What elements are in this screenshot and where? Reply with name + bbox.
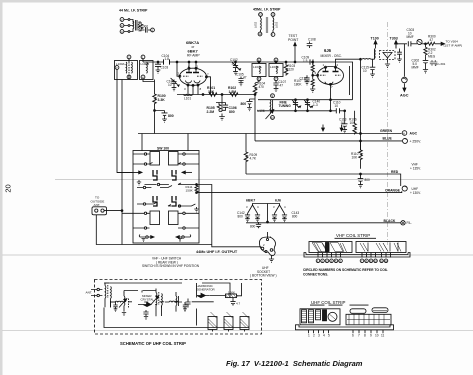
junction mixer grid (312, 74, 314, 76)
node 4 (330, 259, 334, 263)
coil block B (224, 317, 233, 330)
node 9b (45Mc strip) (271, 33, 275, 37)
svg-text:7: 7 (207, 73, 209, 77)
capacitor C110 10 series (336, 108, 339, 113)
svg-text:4.7: 4.7 (236, 302, 241, 306)
ground C103 (156, 68, 161, 73)
node below L103A (257, 77, 261, 81)
svg-text:TUNING: TUNING (279, 104, 292, 108)
svg-text:10K: 10K (350, 121, 357, 125)
wire arrow to V304 (435, 43, 443, 45)
svg-text:L653: L653 (275, 21, 279, 28)
wire connector to ant vertical (104, 210, 122, 212)
capacitor C107 47 (273, 81, 278, 87)
coil L2 (110, 300, 123, 303)
capacitor 6J6 left (272, 214, 277, 222)
switch row 5 (137, 202, 157, 204)
capacitor C302 5.0 MMF (423, 57, 429, 66)
svg-text:10: 10 (341, 121, 345, 125)
svg-text:2.2M: 2.2M (207, 110, 215, 114)
socket pin left (261, 247, 264, 250)
svg-text:4: 4 (257, 205, 259, 209)
coil box L100B (140, 61, 154, 80)
svg-text:800: 800 (365, 178, 371, 182)
capacitor C109 1.5 series on bus (310, 59, 313, 64)
ground grid leak (310, 87, 315, 92)
socket pin right (270, 249, 273, 252)
svg-text:10: 10 (271, 116, 275, 120)
heater 6J6 filament (275, 205, 285, 214)
wire 44Mc contacts (124, 20, 128, 32)
svg-text:8: 8 (364, 333, 366, 337)
AGC arrow down (403, 83, 405, 89)
node 4 below L100B (141, 75, 145, 79)
wire drops to bottom (111, 283, 197, 326)
resistor R108 grid leak upper (311, 62, 314, 75)
resistor R101 33K series (209, 93, 217, 97)
tube V101 6J6 envelope (318, 67, 344, 85)
resistor R105 2.2M shunt (216, 95, 222, 112)
node 9 (369, 259, 373, 263)
UHF strip right block (346, 314, 391, 325)
svg-text:120: 120 (289, 68, 295, 72)
wire heater bus / black (246, 204, 401, 223)
svg-text:CRYSTAL: CRYSTAL (141, 298, 155, 302)
wire osc line 2 (257, 110, 344, 112)
switch row 4 (137, 187, 151, 189)
node 7 (360, 259, 364, 263)
coil box L103B (269, 64, 283, 77)
svg-text:MEG: MEG (428, 55, 436, 59)
contact circles 44Mc (128, 19, 130, 21)
svg-text:6J6: 6J6 (275, 199, 281, 203)
svg-text:10: 10 (168, 83, 172, 87)
svg-text:10K: 10K (352, 156, 359, 160)
tube V100 6BK7A envelope (180, 68, 207, 85)
svg-text:6J6: 6J6 (324, 48, 332, 53)
switch wafer 2 right (172, 196, 176, 206)
node 4 (44Mc strip) (120, 30, 124, 34)
junction dots red line (360, 173, 362, 175)
svg-text:470: 470 (259, 85, 265, 89)
svg-text:5: 5 (328, 333, 330, 337)
pill shape 1 (350, 309, 366, 314)
coil L107 series (362, 58, 375, 61)
svg-text:VHF COIL STRIP: VHF COIL STRIP (336, 233, 370, 238)
wire mid connections (110, 301, 214, 303)
switch wafer 2 left (153, 196, 157, 206)
antenna input terminals (91, 290, 102, 296)
tube V100 pin circles (188, 67, 190, 69)
svg-text:BLUE: BLUE (383, 137, 393, 141)
svg-text:2: 2 (263, 243, 265, 247)
tube V101 internals (323, 71, 339, 73)
ground 800 red (358, 183, 363, 188)
transformer L5 (155, 289, 158, 317)
svg-text:1.5: 1.5 (303, 59, 308, 63)
capacitor C105b 47 (238, 77, 243, 86)
capacitor C303 series (408, 41, 411, 46)
svg-text:C103: C103 (161, 66, 169, 70)
svg-text:L301: L301 (439, 62, 446, 66)
junction dot mixer plate (360, 58, 362, 60)
svg-text:800: 800 (250, 225, 256, 229)
svg-text:BLACK: BLACK (384, 219, 396, 223)
resistor R302 2.2 MEG (424, 44, 427, 57)
T303 secondary cap (397, 49, 402, 58)
wire top bus (143, 61, 353, 63)
svg-text:L652: L652 (254, 21, 258, 28)
tube V101 pin circles (325, 66, 327, 68)
wire plate line y94.5 (177, 94, 255, 96)
svg-text:5: 5 (315, 71, 317, 75)
svg-text:ORANGE: ORANGE (385, 188, 401, 192)
wire AGC line green (138, 133, 402, 135)
cap L7 (185, 299, 190, 308)
junction dot C113 (344, 110, 346, 112)
switch row 3 arrows (117, 171, 140, 173)
svg-text:44 Mc. I.F. STRIP: 44 Mc. I.F. STRIP (119, 9, 148, 13)
node 3 below L100A (127, 75, 131, 79)
svg-text:3: 3 (184, 87, 186, 91)
wire antenna drop 1 (117, 69, 133, 172)
cap mid (143, 310, 148, 316)
node 6 (44Mc strip) (151, 28, 155, 32)
svg-text:+ 135V.: + 135V. (410, 167, 421, 171)
ground R105/C106 (219, 114, 225, 121)
svg-text:4: 4 (323, 333, 325, 337)
svg-text:47: 47 (243, 76, 247, 80)
osc coil L4 (138, 304, 157, 306)
switch rotor arrow left (139, 235, 152, 238)
svg-text:800: 800 (241, 102, 247, 106)
UHF strip schematic dashed box (95, 280, 262, 335)
node 10 (374, 259, 378, 263)
wire blue drop from plate column (254, 140, 256, 142)
svg-text:+ 130V.: + 130V. (410, 191, 421, 195)
core bars (45Mc strip) (266, 17, 268, 33)
terminal B 250V (403, 138, 408, 143)
svg-text:800: 800 (229, 110, 235, 114)
ground C115 (370, 72, 375, 77)
capacitor C142 800 (245, 214, 250, 222)
svg-text:POINT: POINT (288, 38, 298, 42)
svg-text:1-3: 1-3 (313, 103, 318, 107)
node 2 (44Mc strip) (120, 18, 124, 22)
T303 dashed box (380, 51, 396, 60)
switch row 6 left (133, 212, 150, 214)
capacitor 800 heater bus (256, 222, 261, 228)
svg-text:3.3: 3.3 (232, 61, 237, 65)
svg-text:3: 3 (273, 205, 275, 209)
node 2 (321, 259, 325, 263)
wire switch to osc b+ (145, 183, 262, 247)
svg-text:1: 1 (323, 63, 325, 67)
coil L106 box (270, 100, 273, 114)
trimmer C101 3.3 (232, 62, 239, 70)
resistor R106 10K (353, 111, 357, 135)
coil cylinder 3 (316, 310, 321, 320)
coil L101 (184, 94, 193, 97)
wire R100 to bus bottom (154, 105, 156, 134)
svg-text:8: 8 (200, 87, 202, 91)
svg-text:2: 2 (178, 72, 180, 76)
svg-text:SCHEMATIC OF UHF COIL STRI: SCHEMATIC OF UHF COIL STRIP (120, 341, 186, 346)
svg-text:10: 10 (375, 333, 379, 337)
svg-text:T100: T100 (371, 37, 379, 41)
svg-text:10: 10 (335, 104, 339, 108)
ground under right arrow (178, 239, 182, 242)
capacitor 800 red bypass (358, 174, 364, 183)
resistor R105b 120 (284, 62, 288, 76)
wire bottom run (104, 308, 249, 332)
L106 tuning arrow (266, 111, 274, 120)
svg-text:33K: 33K (208, 90, 215, 94)
svg-text:9: 9 (370, 333, 372, 337)
svg-text:7: 7 (358, 333, 360, 337)
resistor R110 10K (359, 141, 363, 169)
svg-text:ANT.: ANT. (86, 291, 93, 295)
capacitor C115 10 (370, 59, 376, 72)
coil cylinder 1 (302, 310, 307, 323)
svg-text:4: 4 (270, 235, 272, 239)
svg-text:T303: T303 (390, 37, 398, 41)
node 8 (365, 259, 369, 263)
coil cylinder 2 (309, 310, 314, 323)
svg-text:+ 250V.: + 250V. (410, 139, 422, 143)
svg-text:AGC: AGC (410, 132, 418, 136)
VHF strip base (304, 253, 410, 258)
resistor R107 4.7K (244, 134, 248, 175)
switch row 2 right (178, 163, 199, 165)
tube V100 plate feeds to bus (189, 62, 196, 68)
svg-text:800: 800 (292, 215, 298, 219)
svg-text:7: 7 (331, 85, 333, 89)
junction dot R100 (154, 110, 156, 112)
svg-text:47: 47 (280, 83, 284, 87)
node below L106 (271, 116, 275, 120)
svg-text:6: 6 (352, 333, 354, 337)
node 12 (45Mc strip) (258, 32, 262, 36)
coil L652 (45Mc strip) (260, 16, 263, 32)
wire L100A top to bus (129, 59, 143, 80)
switch ground right (194, 207, 198, 212)
input transformer L1 (105, 283, 109, 307)
node 3 (325, 259, 329, 263)
junction dots osc (295, 99, 297, 101)
capacitor 800 bypass (plate feed) (247, 99, 256, 106)
ground 800 cap (162, 117, 167, 122)
down arrow tune L (322, 125, 324, 130)
svg-text:L100B: L100B (141, 62, 150, 66)
svg-text:C108: C108 (308, 38, 316, 42)
wire B+ line blue (255, 140, 402, 142)
svg-text:6BK7: 6BK7 (246, 199, 255, 203)
ground under left arrow (142, 239, 146, 242)
svg-text:20: 20 (4, 184, 13, 192)
ground T303 secondary (397, 58, 402, 63)
tube V100 grid wire (177, 62, 180, 76)
socket ground (269, 256, 274, 263)
switch row 7 (133, 227, 150, 229)
terminal X FIL (401, 221, 405, 225)
arrow up T100 (375, 42, 377, 49)
node below L103B (274, 77, 278, 81)
test point arrow (294, 44, 296, 62)
junction dot R302 top (425, 43, 427, 45)
node above L103A (257, 58, 261, 62)
svg-text:C117: C117 (300, 77, 308, 81)
switch wafer 1 right (172, 170, 176, 180)
tube V101 grid wire (313, 74, 318, 76)
capacitor C117 (304, 75, 309, 85)
node 5 (334, 259, 338, 263)
slug arrow coil L3 (119, 300, 126, 308)
terminal C VHF/UHF (402, 186, 407, 191)
capacitor C106 parallel (222, 103, 228, 111)
VHF strip right block (356, 242, 406, 253)
mixer plate wire to T100 (336, 59, 361, 67)
svg-text:800: 800 (168, 114, 174, 118)
resistor R104 470 (253, 81, 259, 95)
svg-text:1: 1 (308, 333, 310, 337)
switch ground left (137, 180, 141, 185)
wire connector down (96, 215, 212, 245)
UHF strip base (296, 325, 394, 330)
antenna coil box L100A (115, 61, 138, 80)
node 10 (45Mc strip) (259, 13, 263, 17)
transformer T (44Mc strip) (130, 20, 133, 32)
wire UHF B line orange (197, 191, 402, 193)
wire antenna drop 2 (122, 80, 133, 245)
heater 6BK7 filament (248, 205, 258, 214)
trimmer screw dark (323, 310, 327, 321)
wire VHF B line red (246, 174, 401, 186)
svg-text:180K: 180K (294, 83, 302, 87)
svg-text:1.8M: 1.8M (229, 90, 237, 94)
resistor R108 grid leak lower (311, 75, 314, 88)
svg-text:A: A (403, 131, 405, 135)
UHF socket body (259, 237, 275, 256)
page rule 3 (2, 330, 473, 332)
page rule 2 (2, 254, 473, 256)
svg-text:4.7K: 4.7K (250, 157, 257, 161)
pill shape 2 (372, 308, 388, 313)
wire L100B to R100 (143, 80, 155, 82)
svg-text:L106: L106 (258, 109, 265, 113)
svg-text:(1ST IF AMP): (1ST IF AMP) (444, 44, 463, 48)
svg-text:CONNECTIONS.: CONNECTIONS. (303, 272, 328, 276)
capacitor C103 (155, 62, 161, 68)
svg-text:3.3K: 3.3K (158, 98, 166, 102)
svg-text:SWITCH IS SHOWN IN VHF POSITIO: SWITCH IS SHOWN IN VHF POSITION (142, 264, 200, 268)
frame left edge (0, 0, 3, 375)
wire to R300 (422, 43, 427, 45)
frame top edge (0, 0, 473, 3)
arrow up T303 (395, 42, 397, 49)
coil L100A winding (125, 62, 128, 73)
switch row 1 left (133, 153, 150, 155)
pin 7 wire plate right (207, 77, 211, 95)
svg-text:RF AMP: RF AMP (187, 54, 200, 58)
ground C101 (233, 70, 238, 75)
wire T303 secondary to output (396, 44, 407, 49)
coil L100B winding (146, 62, 149, 73)
AGC takeoff circle (403, 44, 405, 77)
wire C303 to R300 (411, 43, 417, 45)
capacitor 4.7 (230, 298, 235, 306)
coil block A (208, 317, 217, 330)
svg-text:RED: RED (391, 170, 399, 174)
svg-text:1.8: 1.8 (165, 57, 170, 61)
tube pin circle V304 grid (417, 39, 422, 44)
svg-text:MIXER - OSC.: MIXER - OSC. (321, 54, 343, 58)
junction dots 150K (196, 184, 198, 186)
svg-text:3: 3 (246, 205, 248, 209)
svg-text:1: 1 (197, 65, 199, 69)
socket pin top (267, 232, 269, 238)
svg-text:GREEN: GREEN (380, 129, 393, 133)
T303 core triangle (383, 53, 392, 59)
mixer crystal diode (143, 303, 151, 307)
switch row 1 right (169, 152, 179, 166)
UHF strip pin stubs (309, 330, 384, 334)
antenna connector box (92, 207, 107, 215)
coil block C (240, 317, 249, 330)
svg-text:800: 800 (238, 215, 244, 219)
svg-text:MMF: MMF (412, 66, 419, 70)
node above L106 (271, 94, 275, 98)
node 11 (380, 259, 384, 263)
node 7 left of L100A (115, 66, 119, 70)
vertical mixer column x360 (360, 59, 362, 150)
wire bus drop left (141, 134, 143, 152)
ground C302 (423, 66, 428, 73)
node 6 (339, 259, 343, 263)
switch SW100 box (133, 151, 199, 244)
svg-text:45Mc. I.F. STRIP: 45Mc. I.F. STRIP (253, 8, 281, 12)
capacitor C104 series on bus (164, 59, 170, 64)
coil L7 vertical (176, 292, 179, 312)
wire diode to resistor (210, 283, 242, 296)
tube V100 internals (186, 72, 199, 74)
node 1 (316, 259, 320, 263)
ground trimmer C105 (172, 86, 177, 91)
pin 3 cathode drop (188, 85, 198, 95)
svg-text:Fig. 17 V-12100-1 Schematic: Fig. 17 V-12100-1 Schematic Diagram (226, 359, 363, 368)
tube shield circle (328, 312, 337, 321)
down arrow tune R (341, 125, 343, 130)
VHF strip pins (318, 253, 391, 258)
capacitor C143 800 (282, 214, 287, 222)
page rule 1 (55, 179, 473, 181)
junction dots plate line (202, 94, 204, 96)
wire L103A column to plate line (254, 94, 256, 141)
slug arrow L5 (151, 297, 158, 305)
svg-text:11: 11 (381, 333, 385, 337)
coil box L103A (252, 64, 266, 77)
svg-text:3: 3 (318, 333, 320, 337)
ground 800 cap 2 (247, 106, 252, 111)
node 2 above L100A (127, 55, 131, 59)
svg-text:SW 100: SW 100 (157, 147, 169, 151)
node 1 above L100B (141, 55, 145, 59)
cap osc (183, 302, 187, 312)
capacitor C113 10 (342, 111, 348, 128)
trimmer C105 10 (171, 78, 178, 85)
capacitor (44Mc strip) (141, 27, 148, 35)
UHF strip left block (300, 309, 340, 325)
